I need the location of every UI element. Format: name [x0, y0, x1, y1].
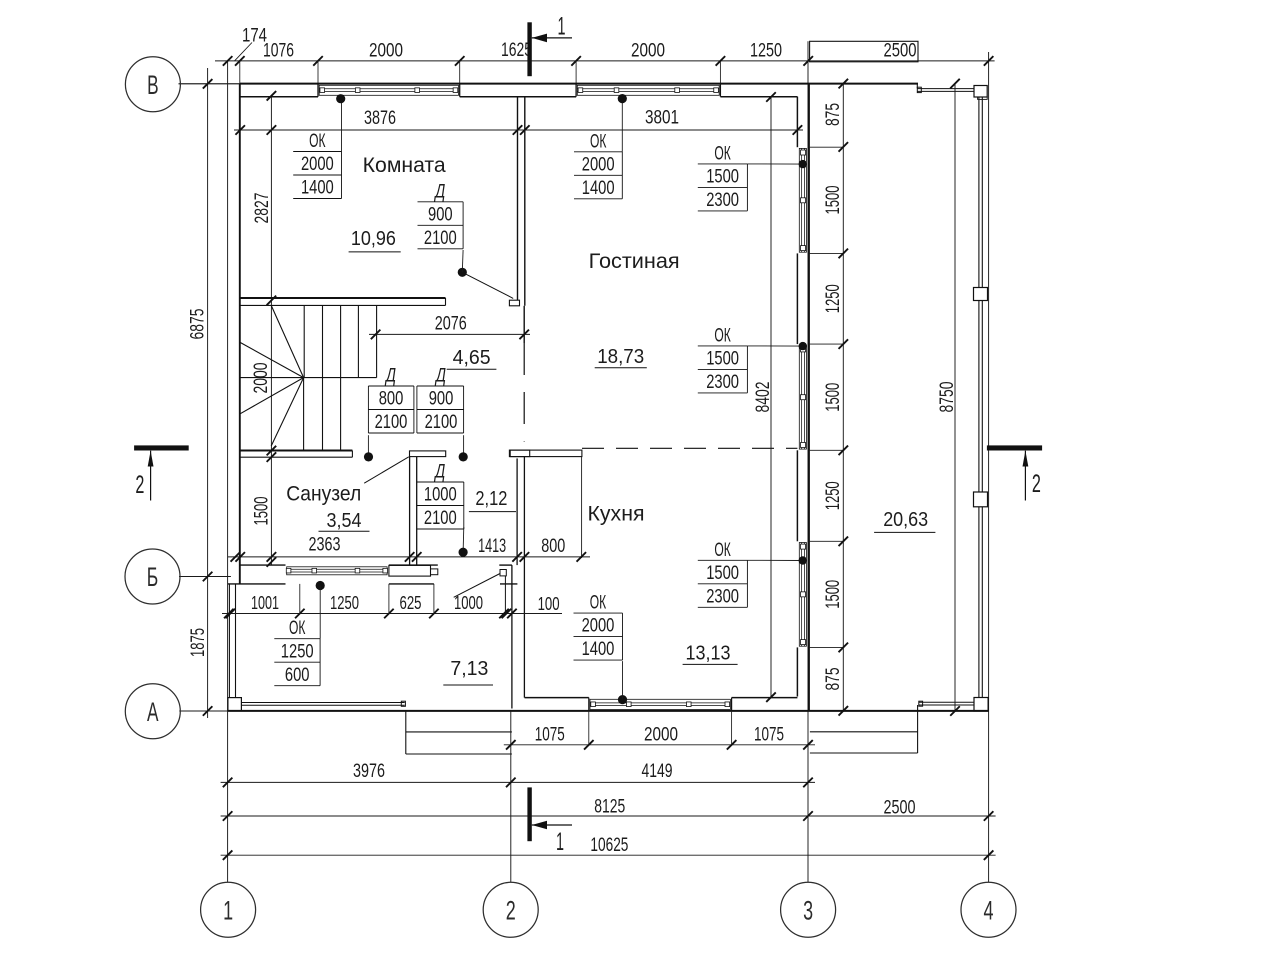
svg-text:1400: 1400 — [582, 639, 615, 660]
svg-text:3876: 3876 — [364, 108, 396, 129]
svg-text:4,65: 4,65 — [453, 347, 491, 369]
svg-text:Кухня: Кухня — [588, 503, 645, 526]
svg-text:900: 900 — [429, 389, 454, 410]
svg-text:18,73: 18,73 — [597, 346, 644, 368]
svg-text:1001: 1001 — [251, 593, 279, 613]
svg-text:10,96: 10,96 — [351, 228, 396, 250]
svg-text:1625: 1625 — [501, 40, 532, 61]
svg-text:2: 2 — [1032, 470, 1041, 498]
svg-text:600: 600 — [285, 665, 310, 686]
svg-text:2300: 2300 — [706, 372, 739, 393]
svg-text:1: 1 — [558, 13, 566, 41]
svg-text:2100: 2100 — [424, 508, 457, 529]
svg-text:2500: 2500 — [884, 41, 917, 62]
svg-text:6875: 6875 — [188, 309, 209, 340]
svg-text:Комната: Комната — [363, 154, 446, 177]
svg-text:800: 800 — [541, 536, 565, 557]
svg-text:1250: 1250 — [281, 641, 314, 662]
svg-text:ОК: ОК — [590, 593, 606, 614]
svg-text:1250: 1250 — [823, 284, 844, 313]
svg-text:Д: Д — [434, 462, 445, 483]
svg-text:ОК: ОК — [714, 325, 730, 346]
svg-text:1075: 1075 — [535, 724, 565, 745]
svg-text:20,63: 20,63 — [883, 509, 928, 531]
svg-text:2000: 2000 — [369, 41, 403, 62]
svg-text:1400: 1400 — [582, 178, 615, 199]
svg-text:875: 875 — [823, 668, 844, 691]
svg-text:1500: 1500 — [823, 580, 844, 609]
svg-text:2000: 2000 — [582, 616, 615, 637]
svg-text:ОК: ОК — [714, 143, 730, 164]
svg-text:900: 900 — [428, 204, 453, 225]
svg-text:2,12: 2,12 — [475, 488, 507, 510]
svg-text:2300: 2300 — [706, 190, 739, 211]
svg-text:1500: 1500 — [823, 186, 844, 215]
svg-text:Д: Д — [435, 366, 446, 387]
svg-text:1: 1 — [556, 828, 564, 856]
svg-text:1875: 1875 — [188, 628, 209, 657]
svg-text:1500: 1500 — [823, 383, 844, 412]
svg-text:1500: 1500 — [706, 563, 739, 584]
svg-text:ОК: ОК — [714, 540, 730, 561]
svg-text:2000: 2000 — [644, 724, 678, 745]
svg-text:Д: Д — [385, 366, 396, 387]
svg-text:3,54: 3,54 — [327, 510, 362, 532]
svg-text:2100: 2100 — [375, 412, 408, 433]
svg-text:1250: 1250 — [823, 481, 844, 510]
svg-text:Санузел: Санузел — [286, 483, 361, 506]
svg-text:4149: 4149 — [642, 761, 673, 782]
svg-text:2000: 2000 — [631, 41, 665, 62]
svg-text:4: 4 — [984, 896, 994, 926]
svg-text:2000: 2000 — [582, 154, 615, 175]
svg-text:8402: 8402 — [753, 382, 774, 413]
svg-text:100: 100 — [538, 594, 560, 614]
svg-text:Гостиная: Гостиная — [589, 250, 680, 273]
svg-text:8125: 8125 — [594, 797, 625, 818]
svg-text:1500: 1500 — [706, 167, 739, 188]
svg-text:ОК: ОК — [309, 131, 325, 152]
svg-text:2: 2 — [506, 896, 516, 926]
svg-text:1250: 1250 — [750, 41, 782, 62]
svg-text:1500: 1500 — [706, 349, 739, 370]
svg-text:2076: 2076 — [435, 314, 467, 335]
svg-text:Б: Б — [147, 562, 159, 592]
svg-text:2363: 2363 — [309, 534, 341, 555]
svg-text:2000: 2000 — [301, 154, 334, 175]
svg-text:2827: 2827 — [252, 193, 273, 224]
svg-text:1000: 1000 — [454, 593, 483, 613]
svg-text:1250: 1250 — [330, 593, 359, 613]
svg-text:10625: 10625 — [590, 835, 628, 856]
svg-text:3976: 3976 — [353, 761, 385, 782]
svg-text:ОК: ОК — [590, 131, 606, 152]
svg-text:2500: 2500 — [884, 797, 916, 818]
svg-text:1076: 1076 — [263, 41, 294, 62]
svg-text:1413: 1413 — [478, 536, 506, 557]
svg-text:3: 3 — [803, 896, 813, 926]
svg-text:1400: 1400 — [301, 178, 334, 199]
svg-text:7,13: 7,13 — [450, 658, 488, 680]
svg-text:2100: 2100 — [425, 412, 458, 433]
svg-text:Д: Д — [434, 181, 445, 202]
svg-text:800: 800 — [379, 389, 404, 410]
svg-text:1000: 1000 — [424, 485, 457, 506]
svg-text:А: А — [147, 697, 159, 727]
svg-text:8750: 8750 — [937, 382, 958, 413]
svg-text:В: В — [147, 70, 159, 100]
svg-text:13,13: 13,13 — [686, 643, 731, 665]
svg-text:1075: 1075 — [754, 724, 784, 745]
svg-text:2100: 2100 — [424, 228, 457, 249]
svg-text:2300: 2300 — [706, 586, 739, 607]
svg-text:3801: 3801 — [645, 108, 679, 129]
svg-text:ОК: ОК — [289, 618, 305, 639]
svg-text:875: 875 — [823, 103, 844, 126]
svg-text:2: 2 — [135, 471, 144, 499]
svg-text:1500: 1500 — [252, 497, 273, 526]
svg-text:1: 1 — [223, 896, 233, 926]
svg-text:625: 625 — [400, 593, 422, 613]
